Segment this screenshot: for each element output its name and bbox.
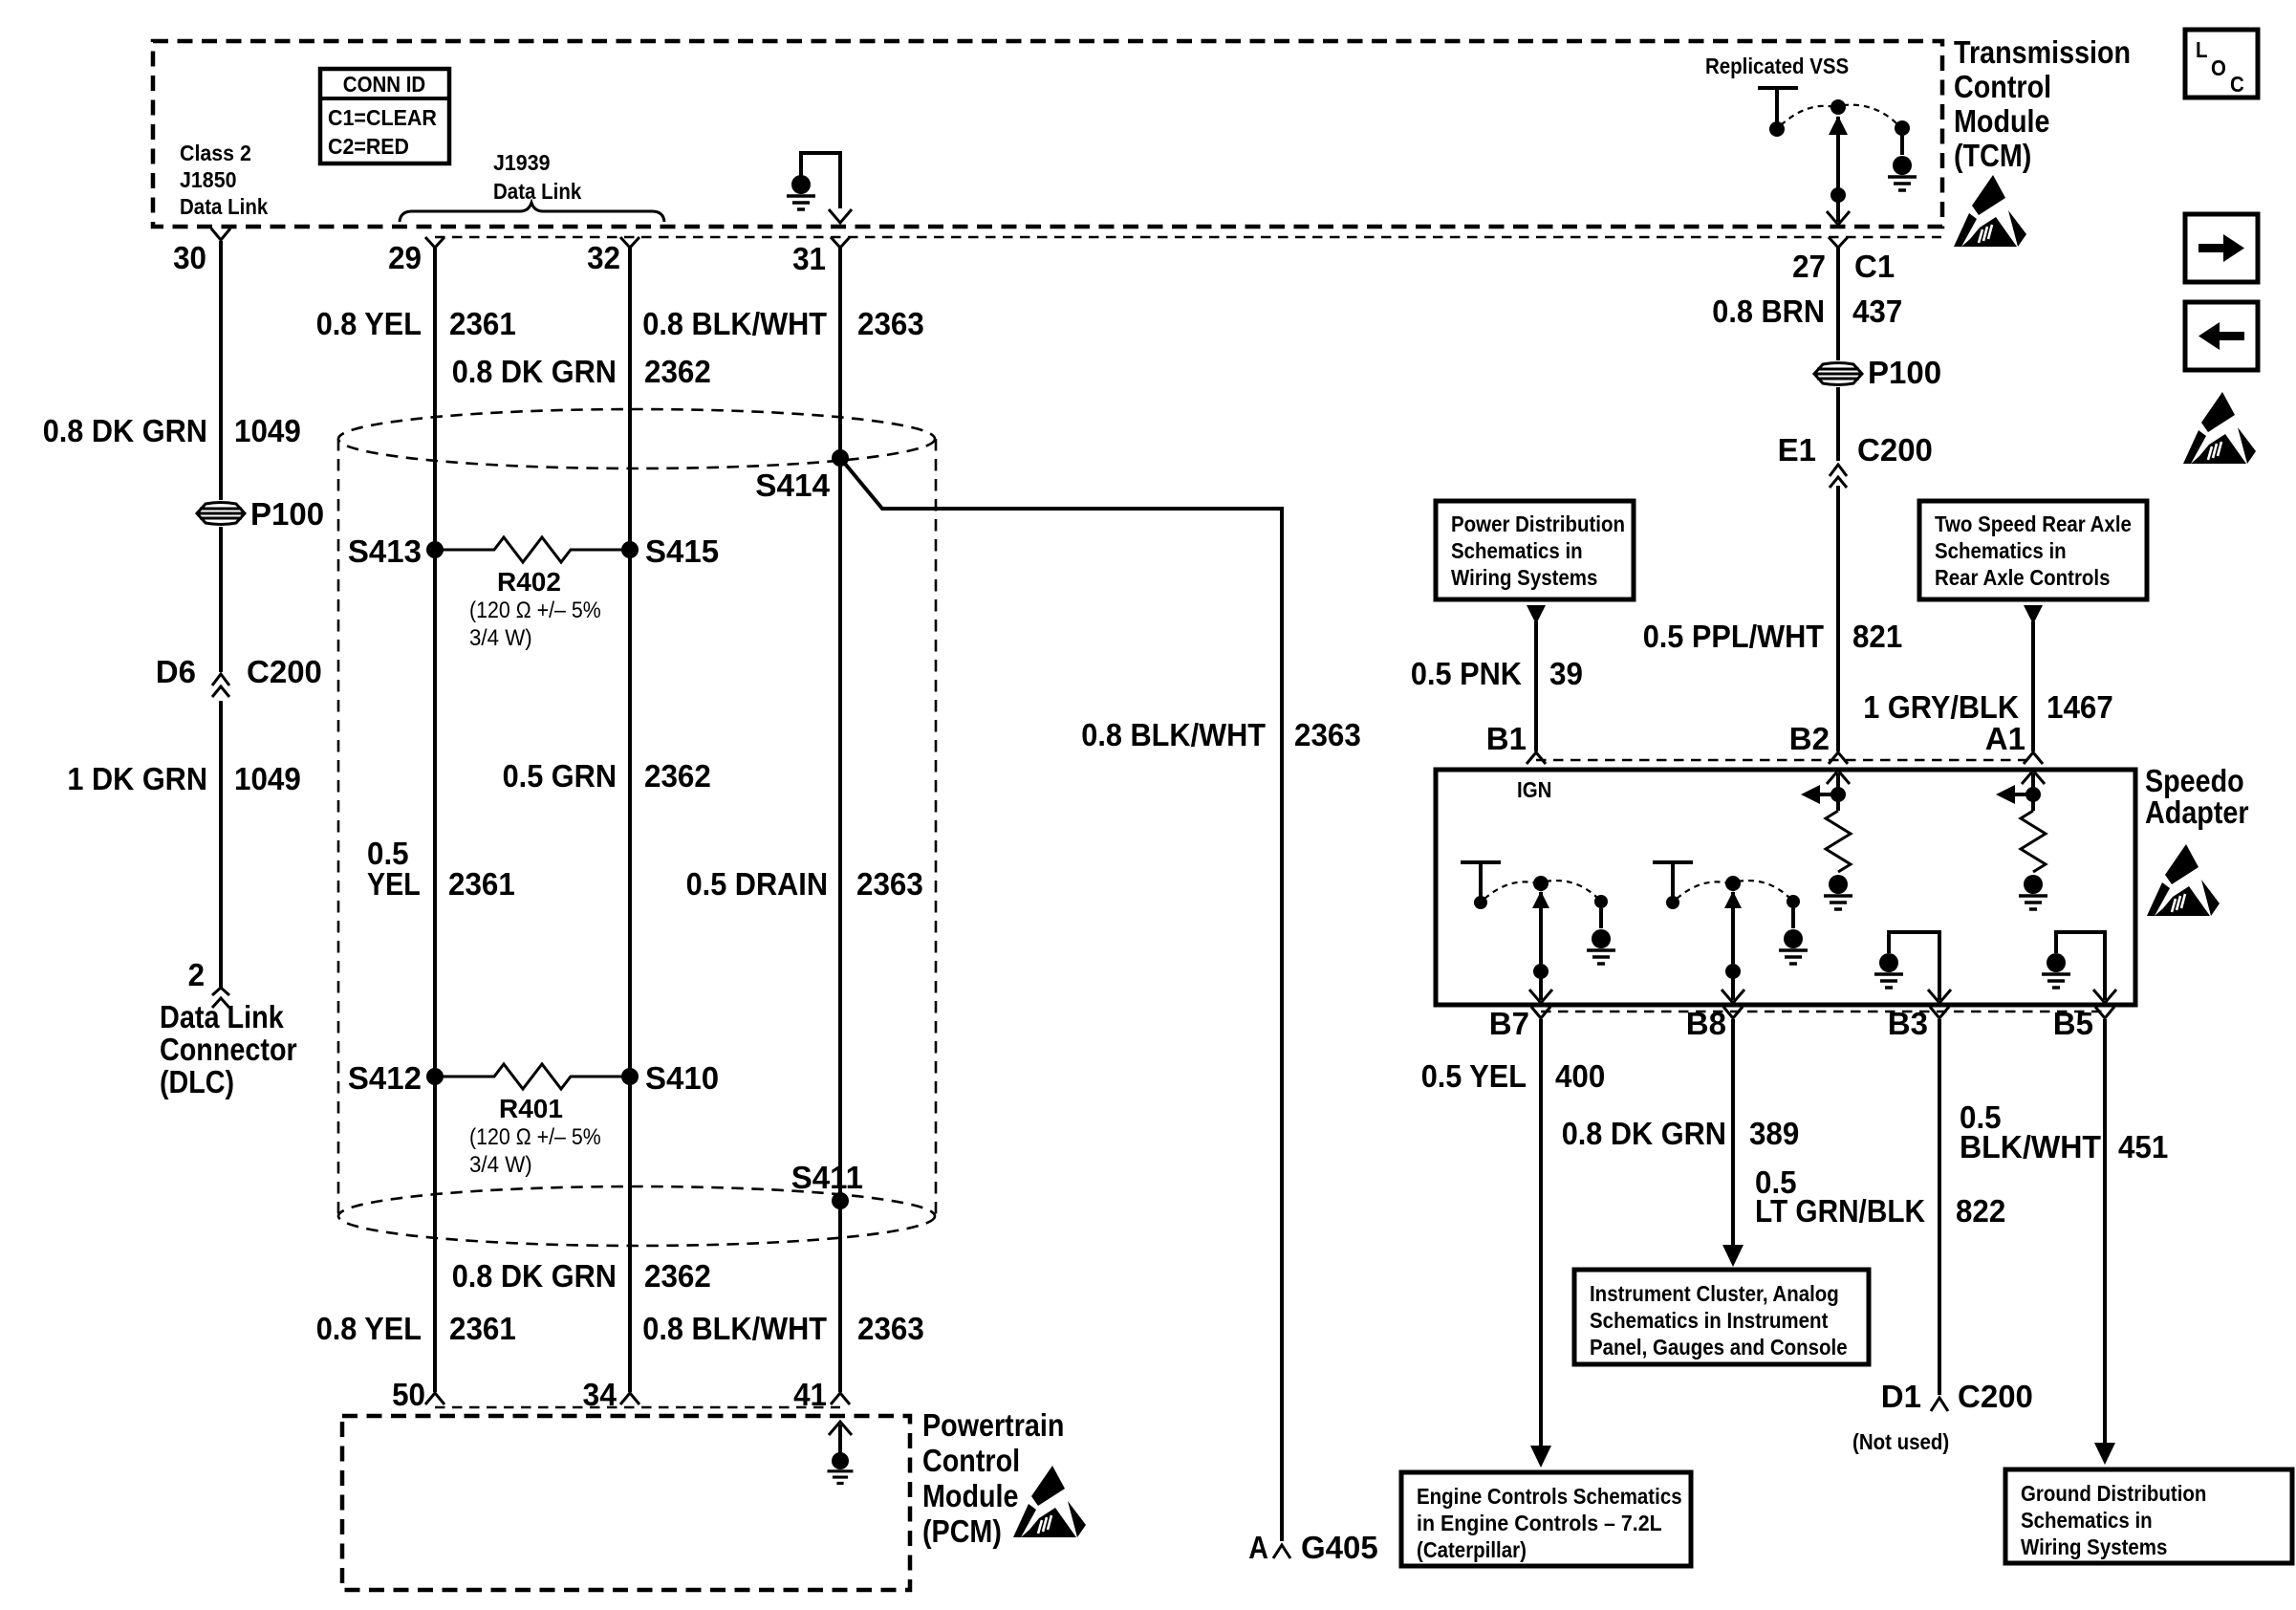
wire 39 to B1 bbox=[1534, 621, 1538, 751]
wire pin32 to pin34 bbox=[628, 248, 632, 1392]
svg-text:0.8 YEL: 0.8 YEL bbox=[316, 306, 422, 341]
svg-text:27: 27 bbox=[1792, 249, 1826, 284]
svg-text:2361: 2361 bbox=[448, 866, 515, 902]
connector face dashed line C1 under TCM bbox=[435, 236, 1941, 239]
svg-text:Speedo: Speedo bbox=[2145, 763, 2244, 798]
svg-text:0.8 YEL: 0.8 YEL bbox=[316, 1311, 422, 1346]
pin B3 bbox=[1888, 1006, 1949, 1041]
wire B7 to Engine Controls bbox=[1530, 1019, 1551, 1468]
svg-text:1049: 1049 bbox=[234, 413, 301, 448]
svg-text:Ground Distribution: Ground Distribution bbox=[2021, 1481, 2206, 1506]
pin 2 of DLC bbox=[188, 957, 229, 1008]
svg-text:2361: 2361 bbox=[449, 306, 516, 341]
svg-text:3/4 W): 3/4 W) bbox=[469, 1152, 532, 1178]
label Powertrain Control Module (PCM) bbox=[922, 1407, 1064, 1549]
svg-text:Engine Controls Schematics: Engine Controls Schematics bbox=[1417, 1484, 1682, 1509]
wire B5 to Ground Distribution bbox=[2094, 1019, 2115, 1465]
VSS pickup symbol 2 in Speedo Adapter bbox=[1653, 862, 1808, 1003]
connector face dashed line at Speedo Adapter top bbox=[1536, 759, 2033, 762]
svg-text:2: 2 bbox=[188, 957, 205, 992]
svg-text:(Not used): (Not used) bbox=[1852, 1429, 1949, 1454]
connector face dashed line at PCM bbox=[435, 1406, 840, 1409]
svg-text:822: 822 bbox=[1956, 1193, 2005, 1229]
connector P100 on wire 437 bbox=[1814, 355, 1941, 390]
svg-text:Transmission: Transmission bbox=[1954, 34, 2131, 70]
arrow from Two Speed box bbox=[2024, 605, 2043, 624]
pin 30 bbox=[173, 228, 230, 275]
connector P100 on wire 30 bbox=[197, 496, 324, 532]
svg-text:Powertrain: Powertrain bbox=[922, 1407, 1064, 1443]
node S410 bbox=[621, 1060, 719, 1096]
svg-text:Data Link: Data Link bbox=[160, 999, 284, 1034]
svg-text:34: 34 bbox=[583, 1377, 617, 1412]
pin 41 bbox=[793, 1377, 850, 1412]
label Transmission Control Module (TCM) bbox=[1954, 34, 2131, 173]
svg-text:(TCM): (TCM) bbox=[1954, 138, 2031, 173]
module box TCM (Transmission Control Module) bbox=[153, 41, 1942, 227]
pin 50 bbox=[392, 1377, 444, 1412]
shield cylinder dashed outline bbox=[338, 409, 936, 1246]
svg-text:Control: Control bbox=[922, 1443, 1020, 1478]
ESD symbol at PCM bbox=[1013, 1466, 1086, 1537]
label 0.8 BLK/WHT 2363 top bbox=[642, 306, 923, 341]
svg-text:Class 2: Class 2 bbox=[180, 141, 251, 165]
svg-text:Data Link: Data Link bbox=[493, 179, 581, 204]
svg-text:(PCM): (PCM) bbox=[922, 1513, 1002, 1549]
svg-text:Control: Control bbox=[1954, 69, 2051, 104]
replicated VSS pickup symbol in TCM bbox=[1758, 88, 1917, 190]
connector E1 C200 bbox=[1778, 432, 1933, 488]
svg-text:0.8 DK GRN: 0.8 DK GRN bbox=[1562, 1116, 1726, 1151]
label 0.5 PNK 39 bbox=[1411, 656, 1583, 691]
svg-text:J1939: J1939 bbox=[493, 150, 551, 175]
wire B8 to Instrument Cluster bbox=[1722, 1019, 1744, 1267]
node S411 bbox=[791, 1160, 863, 1209]
svg-text:IGN: IGN bbox=[1517, 777, 1551, 802]
brace J1939 bbox=[400, 203, 664, 222]
svg-text:D1: D1 bbox=[1881, 1379, 1921, 1414]
svg-text:2363: 2363 bbox=[1294, 717, 1361, 752]
svg-text:B1: B1 bbox=[1486, 721, 1527, 756]
pin 34 bbox=[583, 1377, 640, 1412]
svg-text:C1=CLEAR: C1=CLEAR bbox=[328, 105, 437, 130]
ESD symbol at Speedo Adapter bbox=[2147, 844, 2220, 916]
svg-text:S410: S410 bbox=[645, 1060, 719, 1096]
B2 internal: arrow, resistor and ground bbox=[1801, 771, 1852, 909]
svg-text:2363: 2363 bbox=[857, 306, 924, 341]
svg-text:0.5 PNK: 0.5 PNK bbox=[1411, 656, 1522, 691]
arrow from Power Distribution box bbox=[1527, 605, 1546, 624]
reference box Two Speed Rear Axle bbox=[1919, 501, 2147, 599]
wire pin27 C1 to B2 bbox=[1836, 248, 1840, 751]
svg-text:O: O bbox=[2211, 55, 2226, 80]
label 1 GRY/BLK 1467 bbox=[1863, 689, 2113, 725]
sidebar ESD symbol bbox=[2183, 392, 2256, 464]
label 0.8 DK GRN 389 bbox=[1562, 1116, 1800, 1151]
svg-text:R402: R402 bbox=[497, 567, 561, 597]
B5 internal ground bracket bbox=[2042, 932, 2116, 1003]
node S412 bbox=[348, 1060, 444, 1096]
svg-text:29: 29 bbox=[388, 240, 422, 275]
svg-text:Rear Axle Controls: Rear Axle Controls bbox=[1935, 565, 2111, 590]
svg-text:Wiring Systems: Wiring Systems bbox=[2021, 1534, 2167, 1559]
svg-text:S415: S415 bbox=[645, 533, 719, 569]
label Data Link Connector (DLC) bbox=[160, 999, 297, 1099]
svg-text:G405: G405 bbox=[1301, 1530, 1378, 1565]
pin B8 bbox=[1686, 1006, 1743, 1041]
VSS pickup symbol 1 in Speedo Adapter bbox=[1461, 862, 1615, 1003]
svg-text:0.8 BLK/WHT: 0.8 BLK/WHT bbox=[1081, 717, 1266, 752]
svg-text:B7: B7 bbox=[1489, 1006, 1529, 1041]
svg-text:LT GRN/BLK: LT GRN/BLK bbox=[1755, 1193, 1925, 1229]
wire 1467 to A1 bbox=[2031, 621, 2035, 751]
svg-text:P100: P100 bbox=[1868, 355, 1941, 390]
svg-text:Adapter: Adapter bbox=[2145, 794, 2249, 830]
node S413 bbox=[348, 533, 444, 569]
svg-text:1467: 1467 bbox=[2047, 689, 2113, 725]
svg-text:BLK/WHT: BLK/WHT bbox=[1960, 1129, 2101, 1164]
svg-text:(120 Ω +/– 5%: (120 Ω +/– 5% bbox=[469, 1124, 601, 1150]
ESD symbol at TCM bbox=[1954, 175, 2026, 247]
label 0.8 DK GRN 2362 top bbox=[452, 354, 711, 389]
svg-text:S411: S411 bbox=[791, 1160, 863, 1195]
B3 internal ground bracket bbox=[1874, 932, 1951, 1003]
wire pin30 to DLC pin 2 bbox=[219, 241, 223, 988]
table CONN ID bbox=[320, 69, 449, 163]
svg-text:0.5 DRAIN: 0.5 DRAIN bbox=[686, 866, 828, 902]
svg-text:389: 389 bbox=[1749, 1116, 1799, 1151]
svg-text:Connector: Connector bbox=[160, 1032, 297, 1067]
svg-text:(120 Ω +/– 5%: (120 Ω +/– 5% bbox=[469, 598, 601, 623]
svg-text:437: 437 bbox=[1852, 294, 1902, 329]
svg-text:CONN ID: CONN ID bbox=[343, 72, 425, 97]
wire VSS to pin 27 with arrows bbox=[1827, 116, 1850, 225]
svg-text:S412: S412 bbox=[348, 1060, 422, 1096]
label 0.8 YEL 2361 top bbox=[316, 306, 516, 341]
svg-text:31: 31 bbox=[792, 241, 826, 276]
sidebar icon arrow left bbox=[2185, 302, 2258, 370]
wire pin29 to pin50 bbox=[433, 248, 437, 1392]
svg-text:Schematics in: Schematics in bbox=[2021, 1508, 2153, 1533]
reference box Instrument Cluster bbox=[1574, 1270, 1869, 1364]
wire pin31 to pin41 bbox=[838, 248, 842, 1392]
label 0.8 BLK/WHT 2363 mid bbox=[1081, 717, 1361, 752]
node S415 bbox=[621, 533, 719, 569]
svg-text:R401: R401 bbox=[499, 1094, 563, 1123]
svg-text:D6: D6 bbox=[156, 654, 196, 689]
node S414 bbox=[755, 449, 849, 503]
label 0.8 BLK/WHT 2363 bottom bbox=[642, 1311, 923, 1346]
svg-text:Instrument Cluster, Analog: Instrument Cluster, Analog bbox=[1590, 1281, 1839, 1306]
connector D1 C200 (Not used) bbox=[1852, 1379, 2033, 1454]
svg-text:2362: 2362 bbox=[644, 1258, 711, 1294]
label 0.8 YEL 2361 bottom bbox=[316, 1311, 516, 1346]
A1 internal: arrow, resistor and ground bbox=[1996, 771, 2047, 909]
pin 29 bbox=[388, 237, 444, 275]
pin A1 bbox=[1985, 721, 2043, 764]
sidebar icon arrow right bbox=[2185, 214, 2258, 282]
svg-text:3/4 W): 3/4 W) bbox=[469, 625, 532, 651]
svg-text:L: L bbox=[2196, 37, 2208, 62]
svg-text:1 GRY/BLK: 1 GRY/BLK bbox=[1863, 689, 2019, 725]
svg-text:C2=RED: C2=RED bbox=[328, 134, 409, 159]
svg-text:400: 400 bbox=[1555, 1058, 1605, 1094]
svg-text:1 DK GRN: 1 DK GRN bbox=[67, 761, 207, 796]
svg-text:C: C bbox=[2230, 72, 2244, 97]
svg-text:41: 41 bbox=[793, 1377, 827, 1412]
svg-text:39: 39 bbox=[1549, 656, 1583, 691]
svg-text:YEL: YEL bbox=[367, 866, 421, 902]
svg-text:Schematics in: Schematics in bbox=[1935, 538, 2067, 563]
label 0.8 DK GRN 1049 bbox=[43, 413, 301, 448]
reference box Ground Distribution bbox=[2005, 1469, 2292, 1563]
svg-text:Replicated VSS: Replicated VSS bbox=[1705, 54, 1849, 78]
pin B7 bbox=[1489, 1006, 1550, 1041]
svg-text:in Engine Controls – 7.2L: in Engine Controls – 7.2L bbox=[1417, 1511, 1662, 1535]
svg-text:B3: B3 bbox=[1888, 1006, 1928, 1041]
wire S414 to G405 bbox=[840, 458, 1282, 1541]
svg-text:Data Link: Data Link bbox=[180, 194, 268, 219]
module box Speedo Adapter bbox=[1436, 770, 2135, 1005]
svg-text:S414: S414 bbox=[755, 468, 830, 503]
pin B5 bbox=[2053, 1006, 2114, 1041]
svg-text:0.5 GRN: 0.5 GRN bbox=[503, 758, 617, 794]
svg-text:2361: 2361 bbox=[449, 1311, 516, 1346]
label Class 2 J1850 Data Link bbox=[180, 141, 268, 219]
label 0.5 YEL 400 bbox=[1421, 1058, 1606, 1094]
label 0.5 DRAIN 2363 bbox=[686, 866, 923, 902]
svg-text:32: 32 bbox=[587, 240, 620, 275]
svg-text:451: 451 bbox=[2118, 1129, 2168, 1164]
reference box Power Distribution bbox=[1436, 501, 1634, 599]
svg-text:C200: C200 bbox=[1958, 1379, 2033, 1414]
label J1939 Data Link bbox=[493, 150, 581, 204]
svg-text:B2: B2 bbox=[1789, 721, 1830, 756]
svg-text:0.8 DK GRN: 0.8 DK GRN bbox=[452, 354, 617, 389]
svg-text:Power Distribution: Power Distribution bbox=[1451, 511, 1625, 536]
label Speedo Adapter bbox=[2145, 763, 2249, 830]
svg-text:2362: 2362 bbox=[644, 354, 711, 389]
resistor R401 bbox=[435, 1064, 630, 1178]
label 0.5 PPL/WHT 821 bbox=[1643, 619, 1903, 654]
ground inside TCM near pin 31 bbox=[787, 153, 840, 209]
svg-text:A: A bbox=[1248, 1530, 1268, 1565]
svg-text:C1: C1 bbox=[1854, 249, 1895, 284]
label 1 DK GRN 1049 bbox=[67, 761, 300, 796]
label 0.5 LT GRN/BLK 822 bbox=[1755, 1164, 2005, 1229]
svg-text:S413: S413 bbox=[348, 533, 422, 569]
label 0.8 DK GRN 2362 bottom bbox=[452, 1258, 711, 1294]
internal ground at pin 41 in PCM bbox=[828, 1422, 854, 1483]
svg-text:J1850: J1850 bbox=[180, 167, 237, 192]
svg-text:30: 30 bbox=[173, 240, 206, 275]
arrowhead into pin 31 bbox=[829, 209, 852, 223]
pin 27 / C1 bbox=[1792, 237, 1895, 284]
svg-text:2363: 2363 bbox=[857, 1311, 924, 1346]
svg-text:P100: P100 bbox=[250, 496, 324, 532]
svg-text:Schematics in Instrument: Schematics in Instrument bbox=[1590, 1308, 1829, 1333]
svg-text:0.8 DK GRN: 0.8 DK GRN bbox=[43, 413, 207, 448]
connector D6 C200 on wire 30 bbox=[156, 654, 322, 697]
pin 32 bbox=[587, 237, 639, 275]
pin 31 bbox=[792, 237, 850, 276]
connector face dashed line at Speedo Adapter bottom bbox=[1541, 1011, 2105, 1013]
svg-text:(DLC): (DLC) bbox=[160, 1064, 234, 1099]
reference box Engine Controls bbox=[1401, 1472, 1691, 1566]
svg-text:2363: 2363 bbox=[856, 866, 923, 902]
svg-text:821: 821 bbox=[1852, 619, 1902, 654]
svg-text:B5: B5 bbox=[2053, 1006, 2093, 1041]
svg-text:Module: Module bbox=[922, 1478, 1019, 1513]
svg-text:(Caterpillar): (Caterpillar) bbox=[1417, 1537, 1527, 1562]
svg-text:E1: E1 bbox=[1778, 432, 1816, 468]
svg-text:50: 50 bbox=[392, 1377, 425, 1412]
svg-text:Schematics in: Schematics in bbox=[1451, 538, 1583, 563]
svg-text:B8: B8 bbox=[1686, 1006, 1726, 1041]
svg-text:0.8 DK GRN: 0.8 DK GRN bbox=[452, 1258, 617, 1294]
label 0.5 GRN 2362 bbox=[503, 758, 711, 794]
label 0.5 YEL 2361 mid bbox=[367, 836, 515, 902]
pin B2 bbox=[1789, 721, 1848, 764]
svg-text:Two Speed Rear Axle: Two Speed Rear Axle bbox=[1935, 511, 2132, 536]
svg-text:C200: C200 bbox=[1857, 432, 1933, 468]
svg-text:Panel, Gauges and Console: Panel, Gauges and Console bbox=[1590, 1335, 1848, 1360]
module box PCM (Powertrain Control Module) bbox=[342, 1416, 910, 1590]
svg-text:0.5 YEL: 0.5 YEL bbox=[1421, 1058, 1527, 1094]
resistor R402 bbox=[435, 537, 630, 651]
svg-text:0.8 BLK/WHT: 0.8 BLK/WHT bbox=[642, 1311, 827, 1346]
svg-text:A1: A1 bbox=[1985, 721, 2025, 756]
svg-text:0.8 BLK/WHT: 0.8 BLK/WHT bbox=[642, 306, 827, 341]
wire B3 to D1 C200 bbox=[1938, 1019, 1941, 1395]
svg-text:0.8 BRN: 0.8 BRN bbox=[1712, 294, 1825, 329]
label 0.8 BRN 437 bbox=[1712, 294, 1902, 329]
ground node A G405 bbox=[1248, 1530, 1377, 1565]
label 0.5 BLK/WHT 451 bbox=[1960, 1099, 2168, 1164]
pin B1 bbox=[1486, 721, 1546, 764]
svg-text:Wiring Systems: Wiring Systems bbox=[1451, 565, 1597, 590]
svg-text:2362: 2362 bbox=[644, 758, 711, 794]
sidebar icon LOC bbox=[2185, 30, 2258, 98]
svg-text:1049: 1049 bbox=[234, 761, 301, 796]
svg-text:C200: C200 bbox=[247, 654, 322, 689]
svg-text:0.5 PPL/WHT: 0.5 PPL/WHT bbox=[1643, 619, 1824, 654]
svg-text:Module: Module bbox=[1954, 103, 2050, 139]
